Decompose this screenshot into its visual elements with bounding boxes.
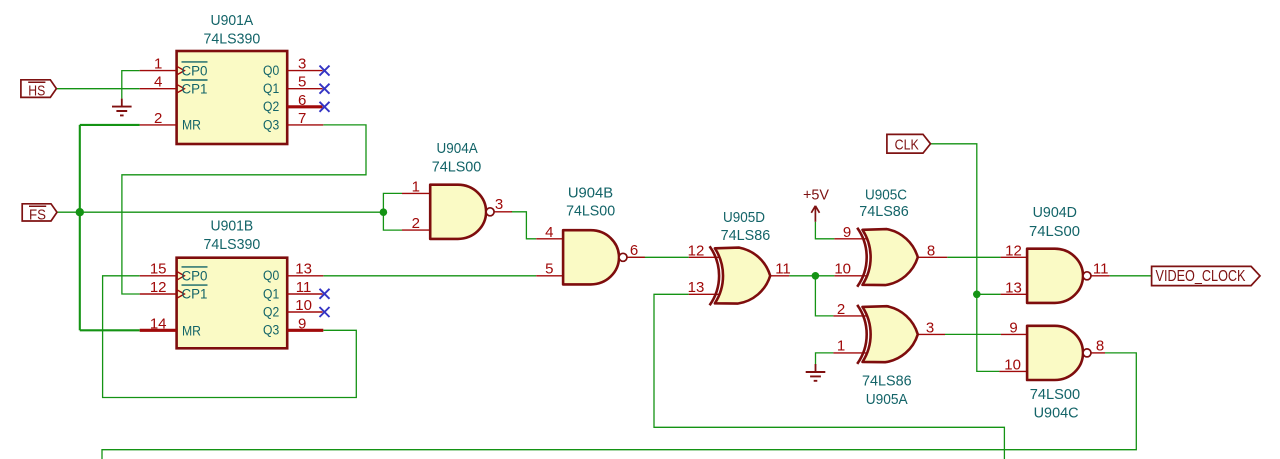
pin 2 xyxy=(833,315,867,317)
pin 10 xyxy=(834,275,867,277)
pin 11 xyxy=(287,293,322,295)
svg-text:74LS00: 74LS00 xyxy=(432,159,482,176)
svg-text:12: 12 xyxy=(688,242,705,259)
svg-text:74LS00: 74LS00 xyxy=(1030,386,1080,403)
pin 5 xyxy=(536,275,562,277)
svg-text:9: 9 xyxy=(298,315,306,332)
pin 1 xyxy=(140,70,177,72)
pin 9 xyxy=(1001,333,1027,335)
svg-text:U905C: U905C xyxy=(865,187,907,204)
IC U901A 74LS390 xyxy=(140,12,324,144)
svg-text:3: 3 xyxy=(495,196,503,213)
svg-text:15: 15 xyxy=(150,261,167,278)
svg-text:1: 1 xyxy=(412,178,420,195)
wire U901A CP0 to ground xyxy=(122,71,140,99)
pin 5 xyxy=(287,88,322,90)
wire MR net U901B xyxy=(80,329,140,331)
pin 11 out xyxy=(770,275,789,277)
gate U904D 74LS00 xyxy=(1001,204,1110,303)
svg-text:U904C: U904C xyxy=(1034,405,1079,422)
wire U905A pin1 to ground xyxy=(816,353,834,364)
gate U904C 74LS00 xyxy=(999,319,1105,421)
svg-text:CP1: CP1 xyxy=(182,287,208,302)
svg-text:Q1: Q1 xyxy=(263,81,279,96)
wire U904D out to VIDEO_CLOCK xyxy=(1110,275,1152,277)
clock arrow CP0 xyxy=(177,271,185,280)
svg-text:U905D: U905D xyxy=(723,209,765,226)
gate U905C 74LS86 xyxy=(834,187,947,287)
svg-text:74LS86: 74LS86 xyxy=(859,203,909,220)
svg-text:14: 14 xyxy=(150,315,167,332)
svg-text:8: 8 xyxy=(927,242,935,259)
svg-text:Q3: Q3 xyxy=(263,323,279,338)
svg-text:74LS00: 74LS00 xyxy=(566,203,615,220)
gate U905D 74LS86 xyxy=(688,209,791,305)
pin 1 xyxy=(833,352,867,354)
pin 9 xyxy=(834,238,867,240)
svg-text:FS: FS xyxy=(29,207,46,223)
no-connect U901B pin10 xyxy=(320,307,330,317)
svg-text:74LS390: 74LS390 xyxy=(204,236,261,253)
wire CLK net xyxy=(931,144,1000,372)
wire U901B Q3 feedback loop xyxy=(103,276,357,398)
global label HS xyxy=(21,80,57,100)
ground near U901A xyxy=(112,99,132,116)
pin 10 xyxy=(287,311,322,313)
svg-text:1: 1 xyxy=(837,338,845,355)
svg-text:CP0: CP0 xyxy=(182,63,208,78)
junction XOR net xyxy=(812,272,820,280)
svg-text:3: 3 xyxy=(298,56,306,73)
svg-text:HS: HS xyxy=(28,84,45,100)
svg-text:5: 5 xyxy=(545,261,553,278)
wire CLK branch to U904D pin13 xyxy=(977,293,1001,295)
wire MR net U901A xyxy=(80,124,140,126)
svg-text:13: 13 xyxy=(295,261,312,278)
svg-text:2: 2 xyxy=(837,301,845,318)
svg-text:12: 12 xyxy=(150,279,167,296)
IC U901B 74LS390 xyxy=(140,218,324,349)
pin 15 xyxy=(140,275,177,277)
wire U905D pin13 net xyxy=(654,294,1004,459)
svg-text:VIDEO_CLOCK: VIDEO_CLOCK xyxy=(1156,268,1247,285)
junction FS-U904A xyxy=(380,208,388,216)
svg-text:U905A: U905A xyxy=(866,391,908,408)
wire U901B Q0 to U904B pin5 xyxy=(323,275,536,277)
svg-text:CP1: CP1 xyxy=(182,82,208,97)
pin 8 out xyxy=(918,256,948,258)
svg-text:U901A: U901A xyxy=(211,12,254,29)
no-connect U901A pin6 xyxy=(320,102,330,112)
power +5V xyxy=(803,188,829,222)
pin 6 out xyxy=(627,256,645,258)
pin 2 xyxy=(140,124,177,126)
global label VIDEO_CLOCK xyxy=(1152,266,1260,285)
svg-text:Q2: Q2 xyxy=(263,99,279,114)
svg-text:3: 3 xyxy=(926,319,934,336)
svg-text:6: 6 xyxy=(298,92,306,109)
wire junction to U905A pin2 xyxy=(815,276,833,316)
svg-text:74LS00: 74LS00 xyxy=(1029,223,1080,240)
pin 13 xyxy=(287,275,323,277)
svg-text:1: 1 xyxy=(154,56,162,73)
wire U901A Q3 to U901B CP1 xyxy=(122,125,366,294)
svg-text:CLK: CLK xyxy=(895,138,919,154)
pin 12 xyxy=(689,256,720,258)
svg-text:Q2: Q2 xyxy=(263,305,279,320)
pin 13 xyxy=(689,293,720,295)
wire U905D out to U905C pin10 xyxy=(789,275,834,277)
pin 3 out xyxy=(918,333,945,335)
svg-text:9: 9 xyxy=(1009,319,1017,336)
pin 8 out xyxy=(1091,352,1105,354)
svg-text:11: 11 xyxy=(296,279,312,296)
svg-text:Q0: Q0 xyxy=(263,268,279,283)
gate U904B 74LS00 xyxy=(536,184,645,284)
svg-text:Q1: Q1 xyxy=(263,286,279,301)
svg-text:U901B: U901B xyxy=(211,218,254,235)
svg-text:4: 4 xyxy=(154,74,162,91)
svg-text:6: 6 xyxy=(630,242,638,259)
no-connect U901B pin11 xyxy=(320,289,330,299)
svg-text:11: 11 xyxy=(775,261,791,278)
global label CLK xyxy=(887,134,931,153)
wire HS net xyxy=(56,88,139,90)
pin 12 xyxy=(140,293,177,295)
svg-text:12: 12 xyxy=(1005,242,1022,259)
pin 2 xyxy=(402,229,430,231)
svg-text:74LS390: 74LS390 xyxy=(204,30,261,47)
no-connect U901A pin3 xyxy=(320,66,330,76)
svg-text:74LS86: 74LS86 xyxy=(862,373,912,390)
pin 14 thick xyxy=(140,329,177,332)
pin 12 xyxy=(1001,256,1028,258)
pin 11 out xyxy=(1091,275,1110,277)
pin 3 out xyxy=(494,211,512,213)
svg-text:2: 2 xyxy=(412,215,420,232)
pin 6 thick xyxy=(287,105,322,108)
wire MR net vertical xyxy=(79,125,81,330)
svg-text:10: 10 xyxy=(295,297,312,314)
wire FS to U904A pin2 xyxy=(383,212,402,230)
junction FS-MR xyxy=(76,208,84,216)
svg-text:10: 10 xyxy=(1004,356,1021,373)
svg-text:4: 4 xyxy=(545,224,553,241)
no-connect U901A pin5 xyxy=(320,84,330,94)
svg-text:U904D: U904D xyxy=(1033,204,1078,221)
svg-text:10: 10 xyxy=(834,260,851,277)
svg-text:+5V: +5V xyxy=(803,188,829,204)
wire FS net xyxy=(57,211,383,213)
svg-text:Q0: Q0 xyxy=(263,63,279,78)
pin 13 xyxy=(1001,293,1028,295)
pin 7 xyxy=(287,124,323,126)
global label FS xyxy=(22,204,57,224)
pin 4 xyxy=(140,88,177,90)
wire U905A out to U904C pin9 xyxy=(945,333,1001,335)
junction CLK net xyxy=(973,291,981,299)
pin 10 xyxy=(999,370,1027,372)
wire U904A out to U904B pin4 xyxy=(511,212,536,239)
wire U905C out to U904D pin12 xyxy=(947,256,1000,258)
pin 4 xyxy=(536,238,562,240)
svg-text:U904B: U904B xyxy=(568,184,613,201)
svg-text:13: 13 xyxy=(688,279,705,296)
wire U904B out to U905D pin12 xyxy=(630,256,689,258)
svg-text:7: 7 xyxy=(298,110,306,127)
pin 1 xyxy=(402,192,430,194)
svg-text:13: 13 xyxy=(1005,279,1022,296)
gate U904A 74LS00 xyxy=(402,140,512,239)
svg-text:74LS86: 74LS86 xyxy=(721,227,771,244)
svg-text:MR: MR xyxy=(182,323,201,338)
clock arrow CP1 xyxy=(177,290,185,299)
pin 3 xyxy=(287,70,322,72)
svg-text:5: 5 xyxy=(298,74,306,91)
ground near U905A xyxy=(806,364,826,381)
svg-text:U904A: U904A xyxy=(437,140,478,157)
wire +5V to U905C pin9 xyxy=(815,222,834,239)
svg-text:CP0: CP0 xyxy=(182,268,208,283)
svg-text:MR: MR xyxy=(182,118,201,133)
clock arrow CP0 xyxy=(177,66,185,75)
svg-text:2: 2 xyxy=(154,110,162,127)
svg-text:11: 11 xyxy=(1093,261,1109,278)
clock arrow CP1 xyxy=(177,84,185,93)
pin 9 thick xyxy=(287,329,323,332)
wire FS to U904A pin1 xyxy=(383,193,402,212)
svg-text:8: 8 xyxy=(1096,338,1104,355)
wire U904C out bottom loop xyxy=(102,353,1136,459)
svg-text:Q3: Q3 xyxy=(263,117,279,132)
svg-text:9: 9 xyxy=(843,224,851,241)
gate U905A 74LS86 xyxy=(833,301,945,408)
